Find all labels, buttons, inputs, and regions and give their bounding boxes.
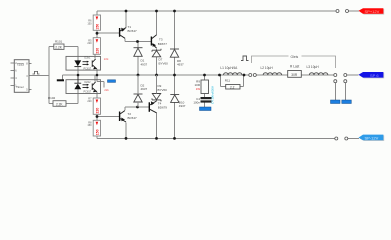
svg-text:BC547: BC547 (128, 29, 138, 33)
svg-text:4937: 4937 (141, 87, 148, 91)
svg-text:1W: 1W (196, 87, 201, 91)
svg-text:BD677: BD677 (158, 42, 168, 46)
svg-text:L2 10µH: L2 10µH (261, 66, 274, 70)
svg-text:R Last: R Last (290, 65, 299, 69)
svg-text:BD679: BD679 (158, 105, 168, 109)
svg-text:7555: 7555 (17, 63, 25, 67)
svg-text:T3: T3 (159, 38, 163, 42)
svg-text:150: 150 (95, 129, 99, 135)
svg-text:2.2: 2.2 (230, 85, 235, 89)
svg-text:150: 150 (87, 22, 92, 25)
svg-text:2.2K: 2.2K (56, 102, 63, 106)
svg-text:4937: 4937 (179, 104, 186, 108)
svg-text:D2b1: D2b1 (84, 56, 91, 59)
svg-text:Gleis: Gleis (291, 55, 299, 59)
svg-text:L1 10µH/4A: L1 10µH/4A (220, 66, 238, 70)
svg-text:22k: 22k (104, 57, 109, 61)
svg-text:L3 10µH: L3 10µH (307, 65, 320, 69)
svg-text:220: 220 (87, 42, 92, 45)
svg-text:BYV60: BYV60 (158, 88, 168, 92)
svg-text:2.2K: 2.2K (55, 46, 62, 50)
svg-text:SP+12V: SP+12V (365, 9, 380, 14)
svg-text:150: 150 (95, 24, 99, 30)
svg-text:SP-12V: SP-12V (365, 135, 379, 140)
svg-text:22k: 22k (104, 88, 109, 92)
svg-text:100n: 100n (193, 101, 200, 105)
svg-text:30R: 30R (291, 73, 298, 77)
svg-text:R102: R102 (48, 96, 56, 100)
svg-text:220: 220 (87, 100, 92, 103)
svg-text:D2b2: D2b2 (85, 81, 92, 84)
svg-text:220: 220 (95, 48, 99, 54)
svg-text:PC817: PC817 (84, 91, 92, 94)
svg-text:Timer: Timer (16, 85, 24, 89)
svg-text:SP 6: SP 6 (370, 73, 379, 78)
svg-text:PC817: PC817 (84, 67, 92, 70)
svg-text:C4 100n/630V: C4 100n/630V (211, 86, 215, 104)
svg-text:4937: 4937 (177, 63, 184, 67)
svg-text:BYV60: BYV60 (159, 61, 169, 65)
svg-text:BC547: BC547 (128, 116, 138, 120)
svg-text:R101: R101 (55, 39, 63, 43)
svg-text:150: 150 (87, 124, 92, 127)
svg-text:R11: R11 (225, 78, 231, 82)
svg-text:4937: 4937 (141, 62, 148, 66)
svg-text:220: 220 (95, 108, 99, 114)
